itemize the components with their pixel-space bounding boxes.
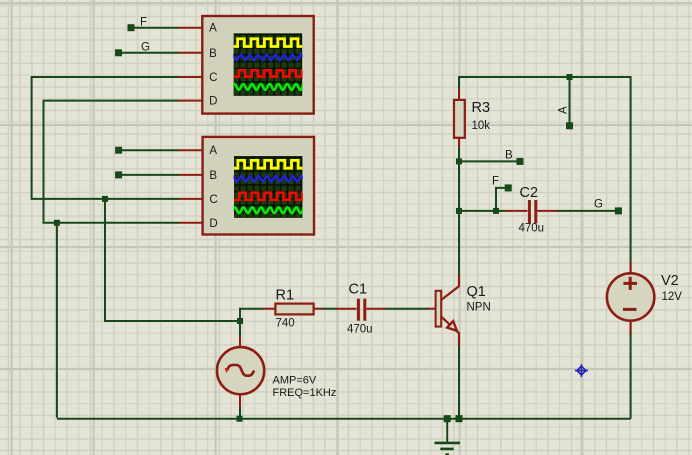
resistor R1 [263, 308, 276, 310]
svg-text:Q1: Q1 [467, 284, 486, 300]
junction scope2 C [102, 196, 108, 202]
svg-text:740: 740 [276, 318, 295, 330]
terminal B [517, 158, 524, 165]
junction ground tap [444, 415, 451, 422]
origin marker [575, 364, 588, 377]
svg-text:F: F [140, 17, 147, 29]
wire F to scope1 pin A [131, 27, 179, 29]
svg-text:C: C [209, 72, 217, 84]
wire R1 feed [240, 308, 264, 310]
oscilloscope body [203, 137, 314, 235]
trace A yellow square wave [234, 160, 302, 168]
pin stub [178, 76, 203, 78]
svg-text:F: F [492, 176, 499, 188]
ground [446, 419, 448, 443]
svg-text:C: C [209, 194, 217, 206]
trace D green sine wave [232, 84, 303, 90]
terminal F2 [505, 184, 512, 191]
wire branch C node to R1 input [105, 199, 240, 321]
svg-text:A: A [558, 106, 570, 114]
wire ground rail [57, 418, 631, 420]
wire source top [239, 308, 241, 338]
svg-text:B: B [209, 48, 217, 60]
terminal scope2 A [115, 147, 122, 154]
wire scope1 pin D down-left [44, 101, 179, 223]
wire to scope2 pin B [119, 174, 179, 176]
pin stub [178, 174, 203, 176]
pin stub [178, 222, 203, 224]
terminal scope2 B [115, 171, 122, 178]
pin stub [178, 149, 203, 151]
trace B blue sine wave [230, 55, 302, 61]
junction B tap [456, 158, 462, 164]
wire C2 to G [557, 210, 618, 212]
svg-text:R3: R3 [472, 100, 491, 116]
svg-text:R1: R1 [276, 288, 295, 304]
svg-text:FREQ=1KHz: FREQ=1KHz [273, 387, 337, 399]
trace D green sine wave [233, 207, 304, 213]
wire source bottom [239, 408, 241, 419]
junction source bottom [237, 416, 243, 422]
wire R3 to collector [458, 147, 460, 275]
svg-text:G: G [141, 42, 150, 54]
trace C red square wave [234, 193, 302, 200]
pin stub [178, 27, 203, 29]
terminal G2 [615, 207, 622, 214]
wire node F [496, 188, 508, 211]
trace A yellow square wave [234, 39, 302, 47]
svg-text:A: A [209, 145, 217, 157]
battery V2 [629, 262, 631, 275]
wire node B [459, 160, 520, 162]
source arrow [225, 368, 230, 373]
svg-text:C1: C1 [349, 282, 368, 298]
pin stub [178, 198, 203, 200]
emitter arrow [447, 321, 457, 331]
wire V2 to rail [630, 333, 632, 419]
wire node A vertical [569, 77, 571, 126]
wire C2 left [459, 210, 506, 212]
resistor R3 [458, 88, 460, 101]
signal generator source [239, 336, 241, 348]
svg-text:470u: 470u [347, 324, 373, 336]
junction scope2 D [54, 220, 60, 226]
svg-text:D: D [209, 218, 217, 230]
wire R1 to C1 [323, 308, 338, 310]
wire scope1 pin C down-left [32, 77, 179, 199]
junction C2 tap [456, 208, 462, 214]
scope screen [234, 33, 302, 95]
transistor Q1 [458, 274, 460, 286]
scope screen [234, 156, 302, 218]
svg-text:470u: 470u [519, 223, 545, 235]
junction source top [237, 318, 243, 324]
capacitor C1 [337, 308, 357, 310]
capacitor C2 [505, 210, 528, 212]
wire emitter to rail [458, 346, 460, 419]
junction node A tap [567, 74, 573, 80]
svg-text:A: A [209, 23, 217, 35]
svg-text:NPN: NPN [467, 302, 491, 314]
svg-text:V2: V2 [661, 273, 679, 289]
svg-text:C2: C2 [520, 185, 539, 201]
wire G to scope1 pin B [119, 52, 179, 54]
svg-text:D: D [209, 96, 217, 108]
wire to scope2 pin A [119, 149, 179, 151]
svg-text:10k: 10k [472, 120, 491, 132]
pin stub [178, 52, 203, 54]
terminal G [115, 49, 122, 56]
wire top rail [459, 77, 631, 263]
terminal A [566, 122, 573, 129]
svg-text:G: G [594, 199, 603, 211]
svg-text:B: B [505, 150, 513, 162]
svg-text:B: B [209, 170, 217, 182]
svg-text:12V: 12V [662, 291, 683, 303]
wire branch D node to ground rail [56, 223, 58, 418]
svg-text:AMP=6V: AMP=6V [273, 375, 317, 387]
junction F tap [493, 208, 499, 214]
wire C1 to base [386, 308, 429, 310]
trace B blue sine wave [231, 176, 303, 182]
junction emitter [456, 415, 463, 422]
terminal F [128, 24, 135, 31]
pin stub [178, 100, 203, 102]
trace C red square wave [234, 70, 302, 76]
oscilloscope body [202, 16, 313, 114]
